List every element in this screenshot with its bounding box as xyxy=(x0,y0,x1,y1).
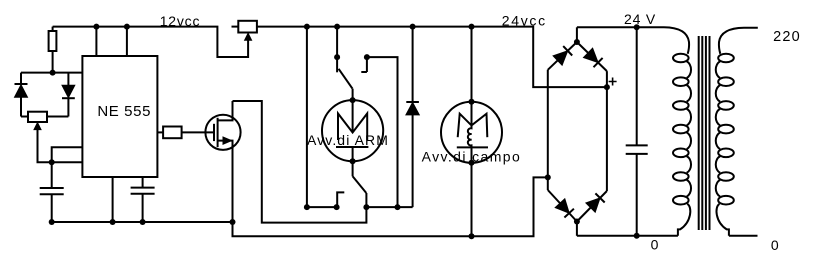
node contact rail left xyxy=(304,204,310,210)
transformer primary coil xyxy=(673,54,691,205)
potentiometer P1 xyxy=(238,21,257,33)
switch SW2 blade xyxy=(353,176,367,207)
node motor M2 bottom xyxy=(469,160,475,166)
node contact bottom-left xyxy=(334,204,340,210)
label NE 555 xyxy=(97,103,151,120)
transformer core xyxy=(699,36,710,230)
diode D5 xyxy=(577,42,607,71)
node bridge plus tap xyxy=(604,84,610,90)
switch SW2 fixed contact xyxy=(337,192,344,207)
wire ground rail xyxy=(52,221,233,223)
wire bottom dc xyxy=(577,235,678,237)
label 0 right xyxy=(771,237,779,253)
svg-text:24 V: 24 V xyxy=(624,11,656,27)
svg-text:NE 555: NE 555 xyxy=(97,103,151,120)
node contact wire xyxy=(395,204,401,210)
wire contact to rail xyxy=(367,57,398,207)
resistor R1 xyxy=(49,27,57,73)
wire contact rail left xyxy=(307,206,337,208)
node C3 bottom xyxy=(634,233,640,239)
motor M2 Avv.di campo xyxy=(441,102,502,163)
label 12vcc xyxy=(160,13,201,29)
wire motor M1 top lead xyxy=(352,89,354,133)
wire motor M1 bottom lead xyxy=(352,147,354,176)
wire bottom rail xyxy=(233,177,547,236)
wire pin1 xyxy=(112,177,114,222)
capacitor C2 xyxy=(131,177,155,222)
wire pin4 xyxy=(126,27,128,56)
node motor M1 bottom xyxy=(350,158,356,164)
wire top switch feed xyxy=(336,27,338,57)
node gnd pin1 xyxy=(110,219,116,225)
wire 24V top xyxy=(577,26,664,28)
node bridge bottom xyxy=(574,219,580,225)
wire bridge bottom stub xyxy=(576,222,578,236)
resistor R2 xyxy=(157,127,214,139)
potentiometer P1 wiper arrow xyxy=(245,33,252,40)
node pin junction xyxy=(49,159,55,165)
switch SW1 blade xyxy=(339,69,353,89)
transformer primary lead top xyxy=(664,27,689,54)
node C3 top xyxy=(634,24,640,30)
node pin8 xyxy=(93,24,99,30)
wire pot right xyxy=(47,116,68,118)
label 220 xyxy=(773,29,801,45)
wire diode junction xyxy=(21,72,82,74)
potentiometer P1 stub xyxy=(232,26,239,28)
wire bridge top stub xyxy=(576,27,578,42)
node M2 rail xyxy=(469,24,475,30)
wire 12vcc rail xyxy=(53,27,249,57)
node M2 gnd xyxy=(469,233,475,239)
wire wiper to junction xyxy=(38,130,83,163)
svg-text:0: 0 xyxy=(771,237,779,253)
node motor M1 top xyxy=(350,97,356,103)
wire 24vcc to contact rail xyxy=(306,27,308,208)
wire contact rail right xyxy=(366,206,412,208)
node D3 top xyxy=(410,24,416,30)
wire 24vcc rail xyxy=(257,27,606,88)
diode D6 xyxy=(548,190,577,222)
potentiometer P2 wiper arrow xyxy=(34,123,41,130)
wire motor M2 top lead xyxy=(471,27,473,126)
capacitor C3 xyxy=(626,27,648,236)
diode D2 xyxy=(62,73,75,117)
wire pins 2-6 tie xyxy=(52,147,83,162)
wire bridge left side xyxy=(547,70,549,190)
switch SW1 pivot xyxy=(334,54,340,72)
label 0 left xyxy=(651,237,659,253)
svg-text:24vcc: 24vcc xyxy=(502,13,547,29)
wire bridge right side xyxy=(606,71,608,191)
wire pin8 xyxy=(95,27,97,56)
node bridge left tap xyxy=(545,174,551,180)
transformer secondary lead bottom xyxy=(716,204,757,236)
capacitor C1 xyxy=(40,162,64,222)
node motor M2 top xyxy=(469,99,475,105)
switch SW1 fixed contact xyxy=(361,54,370,72)
diode D3 xyxy=(406,27,419,208)
transformer secondary lead top xyxy=(719,28,758,54)
svg-text:0: 0 xyxy=(651,237,659,253)
node bridge top xyxy=(574,39,580,45)
svg-text:Avv.di ARM: Avv.di ARM xyxy=(307,132,389,148)
wire drain jog xyxy=(233,101,367,223)
node gnd C2 xyxy=(140,219,146,225)
svg-text:12vcc: 12vcc xyxy=(160,13,201,29)
transformer secondary coil xyxy=(716,54,734,205)
diode D7 xyxy=(577,191,607,222)
svg-text:220: 220 xyxy=(773,29,801,45)
node pin4 xyxy=(124,24,130,30)
node R1/D1/D2 xyxy=(50,70,56,76)
transformer primary lead bottom xyxy=(678,204,690,236)
node gnd C1 xyxy=(49,219,55,225)
diode D1 xyxy=(15,73,28,117)
node 24vcc drop xyxy=(304,24,310,30)
motor M2 symbol xyxy=(457,114,488,148)
motor M1 symbol xyxy=(336,114,368,148)
label 24vcc xyxy=(502,13,547,29)
label Avv.di ARM xyxy=(307,132,389,148)
node top switch feed xyxy=(334,24,340,30)
motor M1 Avv.di ARM xyxy=(322,100,383,161)
node blade junction xyxy=(363,204,369,210)
label Avv.di campo xyxy=(422,149,522,165)
diode D4 xyxy=(548,42,577,70)
svg-text:Avv.di campo: Avv.di campo xyxy=(422,149,522,165)
node gnd source xyxy=(230,219,236,225)
label 24 V xyxy=(624,11,656,27)
transistor Q1 xyxy=(205,101,240,222)
potentiometer P2 xyxy=(28,112,47,122)
label plus xyxy=(609,78,617,86)
op-amp U1 NE 555 xyxy=(82,56,157,177)
wire motor M2 bottom lead xyxy=(471,147,473,236)
wire pot left xyxy=(21,116,28,118)
